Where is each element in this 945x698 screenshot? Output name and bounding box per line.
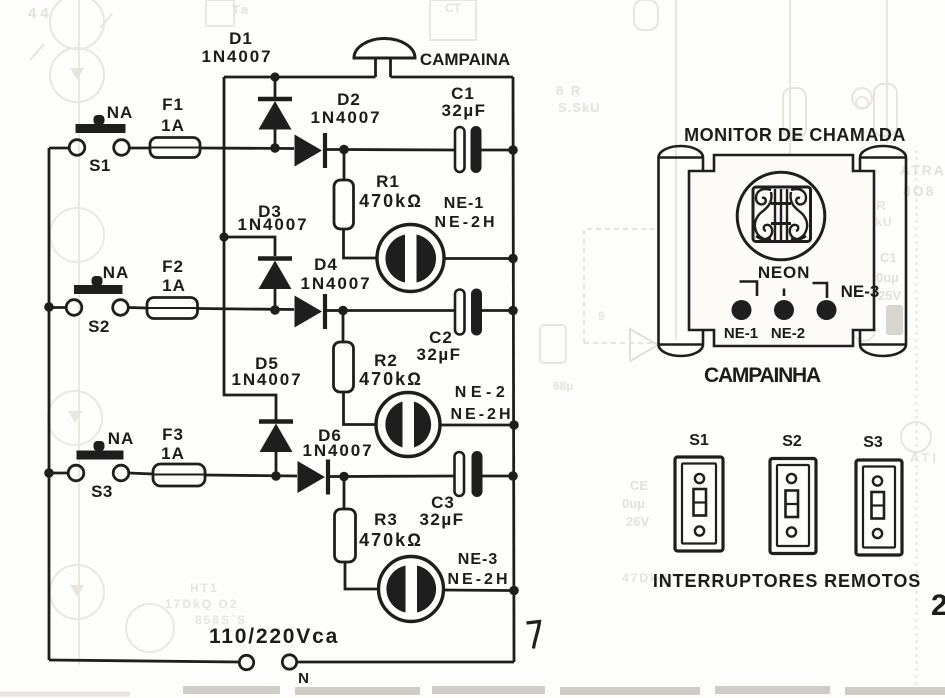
neon lamp NE-1 (377, 225, 513, 292)
svg-text:S3: S3 (91, 482, 113, 501)
fuse F1 (130, 138, 295, 158)
svg-text:F3: F3 (162, 425, 184, 444)
svg-text:HT1: HT1 (190, 581, 219, 595)
bell CAMPAINA (354, 39, 415, 78)
node D3 anode S2 row (270, 305, 280, 315)
fuse F3 (129, 464, 297, 486)
svg-text:D2: D2 (337, 90, 361, 109)
capacitor C2 (455, 289, 513, 336)
svg-text:1N4007: 1N4007 (238, 215, 309, 234)
svg-text:NA: NA (103, 263, 130, 282)
ghost blob C4 (540, 325, 566, 363)
ghost transistor mark left 2 (70, 68, 84, 80)
monitor panel body (689, 155, 874, 346)
node C2 right rail (508, 306, 518, 316)
svg-text:CAMPAINA: CAMPAINA (420, 50, 510, 69)
svg-text:110/220Vca: 110/220Vca (209, 625, 339, 648)
resistor R3 (335, 477, 380, 590)
ghost circle left 1 (50, 0, 104, 49)
ghost resistor right 1 (783, 88, 806, 138)
ghost transistor mark left 5 (70, 585, 84, 597)
svg-text:470kΩ: 470kΩ (359, 530, 423, 550)
svg-text:D4: D4 (314, 255, 338, 274)
ghost vertical line left margin (78, 0, 80, 665)
wire left vertical rail (48, 148, 51, 660)
wire D3 branch (224, 237, 275, 256)
leader line NE-1 (740, 282, 758, 297)
ghost circle left 5 (50, 565, 104, 619)
svg-text:S1: S1 (689, 432, 709, 449)
svg-text:CE: CE (630, 478, 648, 493)
ghost resistor top (634, 0, 658, 30)
ghost small circle right top (852, 88, 872, 108)
neon dot NE-2 (774, 300, 794, 320)
node D1 anode S1 row (270, 143, 280, 153)
switch S2 (49, 276, 128, 315)
node C1 right rail (508, 145, 518, 155)
ghost triangle opamp (630, 329, 658, 361)
wire top rail right segment (391, 76, 514, 79)
svg-text:17DkQ O2: 17DkQ O2 (165, 597, 238, 611)
node NE-2 right rail (509, 420, 519, 430)
neon dot NE-3 (817, 300, 837, 320)
svg-text:26V: 26V (626, 514, 649, 529)
wire to C2 (343, 309, 455, 312)
svg-text:44: 44 (28, 5, 53, 22)
neon window circle (737, 172, 825, 260)
svg-text:32µF: 32µF (419, 510, 464, 529)
svg-text:1N4007: 1N4007 (311, 108, 382, 127)
svg-text:1N4007: 1N4007 (232, 370, 303, 389)
ghost rect top C7 (430, 0, 476, 40)
ghost bottom band (183, 690, 945, 691)
svg-text:1A: 1A (161, 444, 185, 463)
diode D6 (298, 460, 345, 495)
svg-text:8 R: 8 R (556, 83, 582, 98)
svg-text:9: 9 (598, 309, 605, 323)
grille center bars (771, 189, 791, 240)
svg-text:NEON: NEON (758, 263, 810, 282)
ghost circle left 2 (50, 48, 104, 102)
ghost circle left 3 (50, 208, 104, 262)
svg-text:R3: R3 (374, 510, 398, 529)
svg-text:MONITOR DE CHAMADA: MONITOR DE CHAMADA (684, 125, 906, 145)
ghost mark top left slash (30, 14, 112, 60)
wire right vertical rail (513, 77, 514, 662)
ghost bottom band left (0, 692, 130, 697)
leader line NE-2 (783, 289, 786, 297)
svg-text:NA: NA (108, 429, 135, 448)
node S3 left rail (44, 468, 54, 478)
svg-text:R1: R1 (376, 172, 400, 191)
grille scroll right (790, 189, 807, 239)
svg-text:1A: 1A (161, 116, 185, 135)
svg-text:CT: CT (445, 1, 462, 15)
svg-text:NE-3: NE-3 (841, 282, 880, 301)
capacitor C1 (455, 126, 513, 173)
fuse F2 (129, 298, 295, 319)
svg-text:F1: F1 (162, 95, 184, 114)
svg-text:32µF: 32µF (416, 345, 461, 364)
svg-text:S3: S3 (863, 434, 883, 451)
ghost vline 887 (886, 0, 888, 143)
capacitor C3 (455, 451, 514, 497)
diode D5 (259, 422, 293, 477)
node D4 out / R2 branch (338, 306, 348, 316)
switch S3 (49, 441, 129, 481)
svg-text:CAMPAINHA: CAMPAINHA (704, 364, 821, 387)
svg-text:0uµ: 0uµ (622, 496, 645, 511)
ghost vline 790 (789, 0, 791, 205)
wire to C1 (344, 148, 455, 151)
ghost dashed rect (584, 229, 660, 343)
neon lamp NE-2 (376, 393, 514, 457)
node NE-3 right rail (509, 586, 519, 596)
toggle switch plate S1 (675, 457, 723, 551)
ghost circle bottom left (126, 604, 174, 652)
svg-text:8O8: 8O8 (903, 183, 935, 199)
svg-text:S1: S1 (89, 156, 111, 175)
diode D3 (258, 259, 292, 311)
svg-text:D1: D1 (229, 29, 253, 48)
ghost small circle right low (901, 422, 931, 452)
svg-text:NA: NA (107, 103, 134, 122)
node D3 branch (219, 232, 228, 241)
svg-text:1N4007: 1N4007 (301, 274, 372, 293)
svg-text:NE-1: NE-1 (724, 325, 758, 342)
ghost vline right edge (916, 150, 918, 688)
svg-text:32µF: 32µF (441, 101, 486, 120)
monitor left mounting column (659, 146, 704, 356)
diode D1 (258, 77, 292, 148)
ghost small circle right mid (853, 319, 875, 341)
ghost small circle right low2 (856, 97, 868, 109)
ghost dark blob right (886, 305, 903, 335)
svg-text:470kΩ: 470kΩ (359, 191, 423, 211)
grille square (753, 187, 811, 242)
svg-text:NE-3: NE-3 (458, 551, 498, 568)
svg-text:S.SkU: S.SkU (558, 100, 601, 115)
monitor right mounting column (860, 146, 906, 356)
terminal AC line (239, 655, 253, 669)
node D2 out / R1 branch (339, 145, 349, 155)
svg-text:S2: S2 (782, 433, 802, 450)
svg-text:N: N (298, 670, 310, 687)
svg-text:C1: C1 (880, 250, 897, 265)
wire bell branch vertical x224 (224, 77, 276, 420)
neon dot NE-1 (732, 300, 752, 320)
leader line NE-3 (813, 283, 828, 298)
ghost rect top center (206, 0, 234, 26)
node S2 left rail (44, 302, 54, 312)
neon lamp NE-3 (379, 557, 515, 622)
svg-text:NE-2: NE-2 (455, 384, 509, 401)
terminal N (282, 655, 296, 669)
ghost vline 676 (675, 0, 677, 340)
svg-text:NE-1: NE-1 (444, 195, 484, 212)
svg-text:0uµ: 0uµ (876, 270, 899, 285)
svg-text:68µ: 68µ (553, 379, 573, 393)
svg-text:R2: R2 (374, 351, 398, 370)
svg-text:INTERRUPTORES REMOTOS: INTERRUPTORES REMOTOS (653, 571, 921, 591)
svg-text:1N4007: 1N4007 (303, 441, 374, 460)
svg-text:1N4007: 1N4007 (202, 47, 273, 66)
diode D4 (295, 294, 344, 329)
grille scroll left (755, 189, 772, 239)
svg-text:2: 2 (931, 589, 945, 622)
svg-text:470kΩ: 470kΩ (359, 369, 423, 389)
toggle switch plate S2 (770, 459, 816, 554)
svg-text:Ta: Ta (232, 2, 250, 17)
svg-text:NE-2: NE-2 (771, 325, 805, 342)
svg-text:1A: 1A (162, 276, 186, 295)
toggle switch plate S3 (856, 460, 902, 555)
svg-text:F2: F2 (162, 257, 184, 276)
svg-text:NE-2H: NE-2H (450, 406, 513, 423)
svg-text:NE-2H: NE-2H (447, 571, 510, 588)
diode D2 (295, 133, 345, 168)
svg-text:NE-2H: NE-2H (434, 214, 497, 231)
wire bottom rail left segment to terminal (49, 660, 239, 662)
node D1 top (270, 72, 279, 81)
ghost transistor mark left 4 (68, 411, 82, 423)
ghost resistor right 2 (874, 84, 897, 136)
ghost circle left 4 (48, 391, 102, 445)
resistor R2 (334, 311, 377, 425)
wire to C3 (344, 475, 455, 478)
wire bottom rail right segment (297, 661, 514, 664)
switch S1 (49, 115, 129, 155)
resistor R1 (334, 150, 377, 259)
wire top rail left segment (224, 76, 376, 79)
svg-text:S2: S2 (88, 317, 110, 336)
node D5 anode S3 row (271, 471, 281, 481)
figure number 7 (527, 622, 540, 649)
svg-text:25V: 25V (878, 288, 901, 303)
node C3 right rail (508, 471, 518, 481)
node NE-1 right rail (508, 254, 518, 264)
node D6 out / R3 branch (339, 472, 349, 482)
